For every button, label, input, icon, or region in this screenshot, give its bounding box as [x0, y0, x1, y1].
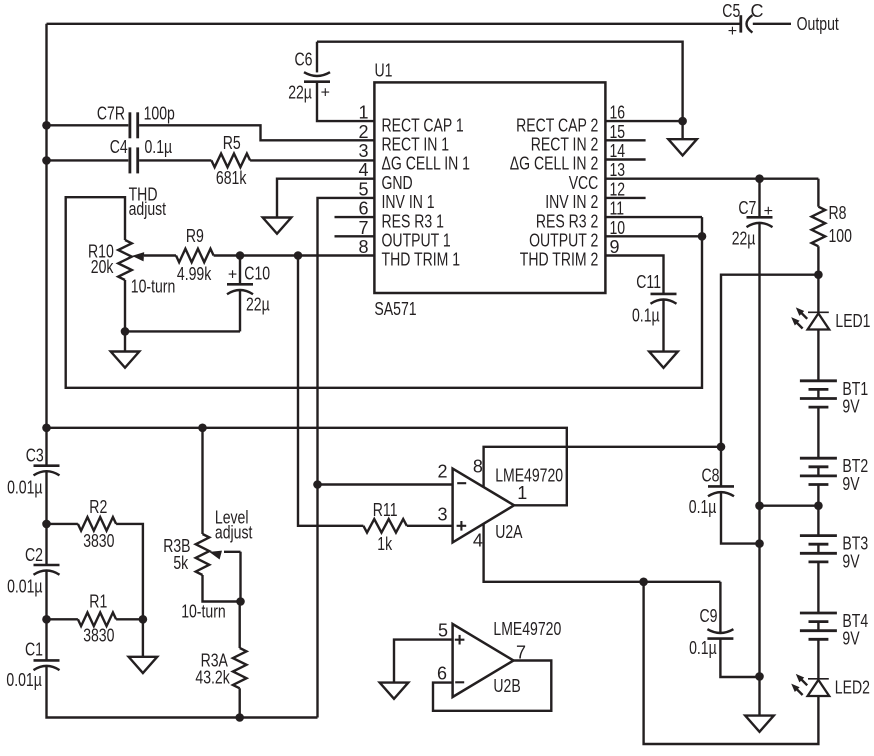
capacitor C11 [632, 272, 677, 352]
wire C9 to rail [720, 639, 759, 677]
wire left rail mid segment [45, 471, 47, 565]
wire C7R to U1 pin 2 [139, 125, 374, 140]
wire R2 to R1 junction [116, 524, 143, 619]
ground at pin 16 node [668, 121, 697, 155]
svg-text:7: 7 [358, 218, 368, 238]
svg-text:U2B: U2B [493, 676, 520, 696]
wire U2A pin 2 input [318, 483, 453, 485]
svg-text:THD TRIM 1: THD TRIM 1 [382, 250, 461, 270]
LED LED2 [791, 674, 870, 698]
svg-text:3: 3 [358, 141, 368, 161]
wire BT4 to LED2 [817, 639, 819, 679]
svg-text:20k: 20k [91, 257, 114, 277]
svg-text:0.01µ: 0.01µ [7, 477, 42, 497]
svg-text:C: C [751, 1, 764, 21]
svg-text:LME49720: LME49720 [493, 619, 561, 639]
svg-text:C7R: C7R [97, 103, 125, 123]
battery BT2 9V [800, 456, 868, 494]
resistor R8 [6, 179, 870, 744]
U2A minus input symbol [457, 482, 466, 484]
svg-text:adjust: adjust [129, 199, 167, 219]
svg-text:R2: R2 [89, 497, 107, 517]
U1 left pin numbers 1-8 [358, 103, 368, 257]
svg-text:OUTPUT 2: OUTPUT 2 [529, 231, 598, 251]
wire C6 top to gnd branch [317, 42, 683, 121]
wire U1 pin 8 row [214, 254, 375, 256]
wire U1 pin 11 to loop [605, 216, 702, 218]
svg-text:3830: 3830 [83, 531, 114, 551]
svg-text:VCC: VCC [569, 173, 599, 193]
capacitor C6 [288, 42, 330, 103]
svg-text:9V: 9V [842, 397, 859, 417]
svg-text:C9: C9 [700, 606, 718, 626]
svg-text:RES R3 2: RES R3 2 [536, 211, 598, 231]
svg-text:11: 11 [610, 199, 625, 219]
svg-text:8: 8 [473, 456, 483, 476]
svg-text:16: 16 [610, 103, 626, 123]
wire R10 bottom to junction [124, 280, 126, 331]
wire U1 pin 9 to C11 [605, 256, 663, 294]
wire U2A pin 4 to V- rail [484, 524, 721, 582]
capacitor C5 [722, 1, 763, 40]
wire C4 to R5 [139, 159, 211, 161]
svg-text:U2A: U2A [495, 522, 522, 542]
wire pin 15 stub [605, 139, 645, 141]
svg-text:10: 10 [610, 218, 626, 238]
battery BT3 9V [800, 534, 868, 572]
svg-text:+: + [321, 85, 330, 102]
node junction pin4 rail-LED2 return [639, 578, 648, 587]
wire BT3 to BT4 [817, 562, 819, 613]
svg-text:C1: C1 [25, 640, 43, 660]
svg-text:R5: R5 [223, 133, 241, 153]
svg-text:43.2k: 43.2k [195, 667, 230, 687]
svg-text:10-turn: 10-turn [131, 277, 176, 297]
wire U2A output feedback [47, 428, 567, 506]
wire rail to C7R [47, 124, 129, 126]
svg-text:14: 14 [610, 141, 626, 161]
wire top rail (input node to C5) [47, 23, 741, 25]
wire C10 bottom to R10 junction [125, 330, 240, 332]
svg-text:U1: U1 [375, 60, 393, 80]
resistor R1 [78, 592, 116, 646]
wire R5 to U1 pin 3 [250, 159, 374, 161]
wire R8 junction to LED1 [817, 275, 819, 313]
svg-text:SA571: SA571 [374, 299, 416, 319]
svg-text:0.1µ: 0.1µ [689, 497, 717, 517]
wire rail to R2 [47, 523, 78, 525]
U2B plus input symbol [455, 639, 465, 641]
svg-text:THD TRIM 2: THD TRIM 2 [520, 250, 599, 270]
svg-text:+: + [764, 203, 773, 220]
svg-text:LED2: LED2 [835, 678, 870, 698]
svg-text:C3: C3 [26, 446, 44, 466]
node junction rail-R2 [42, 520, 51, 529]
svg-text:10-turn: 10-turn [181, 602, 226, 622]
svg-text:INV IN 2: INV IN 2 [545, 192, 598, 212]
ground at U2B pin 5 [380, 683, 409, 699]
wire rail to R1 [47, 618, 78, 620]
svg-text:15: 15 [610, 122, 626, 142]
svg-text:9V: 9V [842, 474, 859, 494]
wire pin 12 stub [605, 197, 645, 199]
svg-text:1k: 1k [377, 534, 393, 554]
wire R3B bottom to wiper junction [203, 575, 241, 602]
svg-text:C5: C5 [722, 1, 740, 21]
U1 left pin name labels [382, 115, 471, 269]
svg-text:6: 6 [358, 199, 368, 219]
svg-text:100p: 100p [144, 103, 175, 123]
svg-text:3: 3 [437, 504, 447, 524]
svg-text:100: 100 [829, 226, 852, 246]
wire battery mid tap to rail [760, 505, 819, 507]
svg-text:1: 1 [358, 103, 368, 123]
node junction pin10-loop [698, 232, 707, 241]
svg-text:R9: R9 [186, 226, 204, 246]
svg-text:C11: C11 [636, 272, 661, 292]
ground at supply mid rail [745, 716, 774, 732]
resistor R10 potentiometer [88, 240, 132, 280]
svg-text:RECT IN 1: RECT IN 1 [382, 135, 450, 155]
svg-text:22µ: 22µ [246, 295, 270, 315]
wire feedback node to R3B [201, 428, 203, 534]
wire pin 14 stub [605, 158, 645, 160]
op-amp U1 SA571 box [374, 82, 605, 293]
svg-text:C6: C6 [295, 50, 313, 70]
node junction rail-C7R [42, 121, 51, 130]
svg-text:C10: C10 [244, 264, 270, 284]
wire C6 to U1 pin 1 [317, 82, 374, 121]
svg-text:13: 13 [610, 160, 626, 180]
wire C8 bottom to rail [721, 492, 760, 543]
node junction pin16-gnd [678, 117, 687, 126]
wire LED1 to BT1 [817, 330, 819, 381]
ground at R1/R2 [129, 619, 158, 673]
resistor R2 [78, 497, 116, 551]
node junction bottom rail-R3A [235, 713, 244, 722]
wire R1 to junction [116, 618, 143, 620]
capacitor C3 [7, 446, 59, 498]
wire C7 to ground rail [758, 223, 760, 715]
svg-text:6: 6 [437, 663, 447, 683]
capacitor C4 [110, 137, 172, 173]
svg-text:adjust: adjust [215, 523, 253, 543]
svg-text:1: 1 [517, 483, 527, 503]
wire pin 16 to junction [605, 120, 682, 122]
node junction rail-C4 [42, 156, 51, 165]
resistor R3A [195, 602, 246, 689]
svg-text:Output: Output [797, 14, 839, 34]
wire R8 bottom to C8 branch [721, 275, 818, 487]
capacitor C9 [689, 582, 733, 658]
svg-text:0.1µ: 0.1µ [145, 137, 173, 157]
wire wiper to junction [239, 552, 241, 602]
ground at R10 [111, 331, 140, 367]
svg-text:5: 5 [438, 620, 448, 640]
wire U2A pin 8 to V+ node [484, 447, 721, 488]
node junction feedback-left rail [42, 424, 51, 433]
node junction rail-R1 [42, 615, 51, 624]
svg-text:9: 9 [610, 237, 620, 257]
wire BT2 to BT3 (mid tap) [817, 485, 819, 536]
wire U1 pin 5 to bottom rail [318, 198, 375, 718]
resistor R9 [176, 226, 214, 284]
svg-text:LED1: LED1 [835, 311, 870, 331]
LED LED1 [791, 307, 870, 331]
ground at U1 pin 4 [263, 218, 292, 234]
svg-text:2: 2 [358, 122, 368, 142]
svg-text:C8: C8 [702, 465, 720, 485]
node junction C8-pin8wire [717, 443, 726, 452]
ground at C11 [649, 352, 678, 368]
U1 right pin name labels [510, 115, 599, 269]
node junction V+ rail-battery mid [755, 501, 764, 510]
capacitor C7 [732, 179, 773, 249]
node junction V+ rail-C8 [755, 539, 764, 548]
wire left rail to bottom rail [47, 666, 318, 717]
node junction R1-R2-gnd [139, 615, 148, 624]
svg-text:0.01µ: 0.01µ [6, 670, 41, 690]
svg-text:2: 2 [437, 462, 447, 482]
capacitor C7R [97, 103, 175, 138]
svg-text:8: 8 [358, 237, 368, 257]
node junction pin5 line-U2A pin2 [313, 480, 322, 489]
svg-text:C4: C4 [110, 137, 128, 157]
wire C5 to Output [753, 23, 791, 25]
svg-text:4: 4 [358, 160, 368, 180]
R10 wiper arrowhead [132, 252, 144, 261]
node junction battery mid tap [814, 501, 823, 510]
resistor R3B potentiometer [163, 534, 209, 575]
wire BT1 to BT2 [817, 407, 819, 458]
svg-text:9V: 9V [842, 551, 859, 571]
svg-text:GND: GND [382, 173, 413, 193]
wire left rail lower segment [45, 571, 47, 661]
svg-text:22µ: 22µ [288, 83, 312, 103]
op-amp U2B triangle [453, 624, 514, 697]
wire U2B pin 6 feedback [433, 661, 551, 711]
svg-text:0.1µ: 0.1µ [632, 306, 660, 326]
svg-text:0.1µ: 0.1µ [689, 638, 717, 658]
wire U1 pin 13 VCC to R8 [605, 177, 818, 179]
svg-text:RES R3 1: RES R3 1 [382, 211, 444, 231]
wire rail to C4 [47, 159, 129, 161]
U2B minus input symbol [455, 681, 464, 683]
svg-text:5: 5 [358, 179, 368, 199]
wire R10 top loop to pin 11 [66, 197, 702, 388]
resistor R5 [211, 133, 250, 188]
wire pin 7 stub [335, 235, 375, 237]
op-amp U2A triangle [453, 469, 514, 543]
svg-text:3830: 3830 [83, 626, 114, 646]
wire R3A to bottom rail [238, 688, 240, 717]
node junction VCC-C7 [755, 174, 764, 183]
svg-text:RECT CAP 1: RECT CAP 1 [382, 115, 464, 135]
node junction R10-C10-gnd [121, 327, 130, 336]
R3B wiper arrow [224, 551, 241, 553]
U1 right pin numbers 16-9 [610, 103, 626, 257]
node junction pin8-C10 [236, 251, 245, 260]
capacitor C10 [227, 256, 270, 332]
svg-text:RECT IN 2: RECT IN 2 [531, 135, 599, 155]
svg-text:LME49720: LME49720 [495, 466, 563, 486]
svg-text:681k: 681k [216, 168, 247, 188]
node junction feedback-level adjust [198, 424, 207, 433]
wire LED2 to V- rail [644, 582, 819, 744]
U2A plus input symbol [457, 525, 467, 527]
resistor R11 [363, 500, 406, 554]
svg-text:5k: 5k [173, 553, 189, 573]
svg-text:R11: R11 [373, 500, 398, 520]
wire U1 pin 4 to ground [277, 179, 374, 218]
svg-text:ΔG CELL IN 2: ΔG CELL IN 2 [510, 154, 599, 174]
capacitor C1 [6, 640, 59, 690]
svg-text:ΔG CELL IN 1: ΔG CELL IN 1 [382, 154, 471, 174]
node junction R8-LED1 [814, 270, 823, 279]
wire left rail top segment [45, 24, 47, 466]
capacitor C8 [689, 465, 734, 517]
svg-text:22µ: 22µ [732, 229, 756, 249]
node junction pin8-R11 branch [294, 251, 303, 260]
svg-text:12: 12 [610, 179, 626, 199]
svg-text:INV IN 1: INV IN 1 [382, 192, 435, 212]
svg-text:C2: C2 [25, 545, 43, 565]
wire pin 6 stub [335, 216, 375, 218]
svg-text:RECT CAP 2: RECT CAP 2 [516, 115, 598, 135]
wire U1 pin 10 to loop [605, 235, 702, 237]
battery BT1 9V [800, 379, 868, 417]
node junction V+ rail-C9 [755, 672, 764, 681]
wire R9 to R10 wiper arrow [144, 254, 176, 256]
svg-text:R1: R1 [89, 592, 107, 612]
svg-text:OUTPUT 1: OUTPUT 1 [382, 231, 451, 251]
capacitor C2 [7, 545, 59, 597]
node junction R3B wiper-R3A [236, 597, 245, 606]
svg-text:9V: 9V [842, 629, 859, 649]
wire R11 to U2A pin 3 [407, 525, 453, 527]
svg-text:4.99k: 4.99k [177, 264, 212, 284]
battery BT4 9V [800, 611, 868, 649]
wire x298 branch to R11 [298, 256, 363, 526]
wire U2B pin 5 to ground [394, 640, 453, 683]
svg-text:+: + [728, 23, 737, 40]
svg-text:+: + [228, 266, 237, 283]
svg-text:0.01µ: 0.01µ [7, 577, 42, 597]
svg-text:R8: R8 [829, 203, 847, 223]
svg-text:4: 4 [473, 530, 483, 550]
svg-text:C7: C7 [738, 198, 756, 218]
